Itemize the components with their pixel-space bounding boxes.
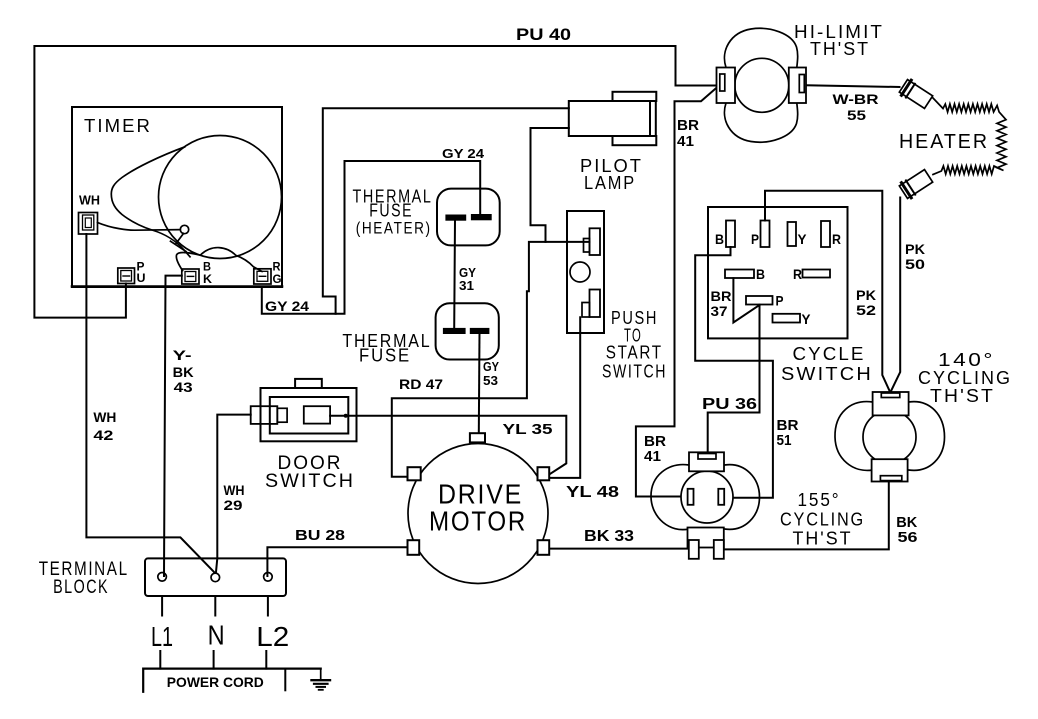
thermal fuse (lower) right contact [471, 329, 489, 333]
svg-text:55: 55 [847, 107, 866, 123]
wire GY 53: lower fuse to motor top terminal [478, 333, 481, 434]
cycle switch slot Y [788, 222, 797, 246]
svg-text:BK 33: BK 33 [584, 528, 634, 545]
wire PK 50: heater bottom plug down to 140 thermostat [890, 198, 900, 393]
terminal R/G [254, 269, 271, 284]
thermal fuse (lower) body [436, 303, 499, 359]
timer pointer pivot [180, 225, 188, 233]
wire L2 below block [267, 596, 269, 616]
motor terminal upper-left [408, 467, 421, 480]
svg-text:53: 53 [483, 373, 498, 388]
power cord divider [284, 669, 286, 691]
wire GY 31: upper fuse to lower fuse [453, 220, 456, 329]
wire Y-BK 43: timer B/K terminal down to terminal block L1 [164, 276, 182, 576]
push-to-start bottom contact [582, 290, 600, 318]
svg-text:G: G [273, 272, 282, 286]
155 thermostat bottom housing [688, 528, 724, 559]
pilot lamp body [569, 92, 657, 145]
svg-text:P: P [751, 231, 759, 247]
svg-text:WH: WH [93, 409, 116, 425]
svg-text:41: 41 [677, 133, 694, 150]
svg-text:B: B [715, 231, 724, 247]
thermal fuse (heater) body [437, 189, 500, 246]
svg-text:Y: Y [802, 311, 812, 327]
timer pointer arm [98, 223, 181, 231]
wire BR 41 net: hi-limit left terminal down to 155 thermostat left terminal [636, 88, 717, 497]
svg-text:CYCLING: CYCLING [780, 510, 865, 530]
svg-text:YL 35: YL 35 [503, 421, 553, 438]
door switch contact [304, 406, 330, 423]
wire W-BR 55: hi-limit right terminal to heater plug [806, 85, 900, 87]
svg-text:TIMER: TIMER [84, 116, 152, 136]
power cord bracket [143, 669, 321, 692]
svg-text:BK: BK [173, 364, 194, 380]
terminal block screw L1 [158, 573, 167, 582]
svg-text:RD 47: RD 47 [399, 376, 443, 392]
push-to-start button [570, 262, 590, 282]
svg-text:START: START [606, 342, 663, 362]
svg-text:R: R [793, 266, 802, 282]
terminal P/U [118, 268, 135, 284]
thermal fuse (heater) right contact [472, 215, 491, 219]
svg-text:BR: BR [677, 117, 699, 134]
power cord tick L2 [265, 651, 267, 669]
wire BU 28: terminal block L2 up, right to motor lower-left terminal [267, 547, 407, 576]
cycle switch bar B [725, 270, 754, 279]
heater top plug [899, 78, 934, 109]
wire YL 48: motor upper-right terminal right, up to push-start bottom [549, 317, 580, 478]
power cord tick N [213, 651, 215, 669]
motor terminal lower-left [408, 540, 420, 555]
svg-text:CYCLE: CYCLE [793, 344, 866, 364]
heater element zigzag [933, 98, 1007, 175]
wire PK 52: cycle switch P slot up, right, down to 140 thermostat [765, 191, 890, 393]
140 thermostat left petal [835, 402, 873, 471]
svg-text:U: U [137, 271, 146, 285]
wire L1 below block [161, 596, 163, 616]
svg-text:MOTOR: MOTOR [429, 506, 527, 537]
svg-text:P: P [776, 293, 784, 309]
junction dot door switch wire [344, 414, 348, 418]
timer cam lobe [111, 147, 190, 257]
svg-text:B: B [756, 266, 765, 282]
svg-text:L1: L1 [151, 621, 173, 652]
svg-text:PU 36: PU 36 [702, 396, 757, 413]
wire N below block [214, 596, 216, 616]
svg-text:WH: WH [79, 193, 100, 208]
cycle switch slot B [726, 221, 735, 248]
svg-text:50: 50 [905, 256, 925, 272]
drive motor body [408, 444, 548, 584]
wire PU 36: cycle switch P bar down, left, down to 155 thermostat top [708, 305, 760, 453]
timer pointer spurs [171, 234, 187, 252]
wire cycle switch wiper: B bar down, diagonal to P bar [733, 278, 759, 322]
terminal WH [79, 213, 98, 235]
cycle switch bar P [746, 296, 773, 305]
motor terminal upper-right [538, 467, 550, 480]
svg-text:LAMP: LAMP [584, 173, 636, 193]
cycle switch slot P [761, 221, 770, 248]
155 thermostat disc [681, 471, 733, 523]
svg-text:YL 48: YL 48 [566, 484, 619, 501]
svg-text:37: 37 [711, 303, 728, 319]
wire WH 42: timer WH terminal down, right, diagonal to N screw [86, 234, 214, 573]
wire BK 33: motor lower-right terminal to 155 thermostat left foot [549, 548, 689, 550]
thermal fuse (lower) left contact [444, 329, 465, 333]
svg-text:FUSE: FUSE [359, 346, 411, 366]
155 thermostat right petal [725, 465, 760, 530]
svg-text:PK: PK [905, 241, 925, 257]
cycle switch bar R [803, 270, 831, 278]
hi-limit left terminal [717, 68, 736, 104]
svg-text:CYCLING: CYCLING [918, 368, 1012, 388]
cycle switch bar Y [773, 314, 801, 323]
svg-text:PU 40: PU 40 [516, 25, 571, 44]
svg-text:Y-: Y- [173, 347, 192, 363]
svg-text:N: N [208, 620, 225, 651]
thermal fuse (heater) left contact [446, 216, 465, 220]
terminal B/K [182, 269, 199, 284]
svg-text:R: R [832, 231, 841, 247]
motor terminal top [470, 433, 485, 442]
svg-text:TH'ST: TH'ST [793, 529, 853, 549]
hi-limit th'st bottom petal [724, 103, 797, 142]
140 thermostat top housing [873, 392, 909, 415]
svg-text:(HEATER): (HEATER) [356, 219, 432, 238]
svg-text:PK: PK [856, 287, 876, 303]
svg-text:W-BR: W-BR [833, 91, 879, 107]
wire door switch to YL35 run: door contact right across to pentagon corner [330, 416, 566, 475]
svg-text:56: 56 [898, 529, 918, 546]
svg-text:140°: 140° [938, 350, 995, 370]
wire RD 47 net: push-start top terminal to motor upper-left terminal [392, 242, 590, 477]
push-to-start top contact [584, 228, 601, 255]
timer box [72, 107, 282, 287]
svg-text:SWITCH: SWITCH [781, 364, 873, 384]
svg-text:HEATER: HEATER [899, 131, 989, 153]
svg-text:29: 29 [224, 497, 243, 513]
wire pilot lamp lower lead to RD47 net [531, 128, 569, 242]
svg-text:155°: 155° [798, 490, 841, 510]
svg-text:SWITCH: SWITCH [602, 361, 667, 381]
ground [312, 669, 331, 690]
wire WH 29: door switch plug left, down to terminal block N [216, 415, 251, 572]
155 thermostat left petal [651, 465, 689, 530]
terminal block screw N [211, 573, 220, 582]
wire GY 24 net: timer R/G down, right, up, right to fuse; branch up-left to pilot lamp [262, 108, 569, 313]
push-to-start switch body [567, 211, 604, 333]
svg-text:BLOCK: BLOCK [53, 577, 109, 598]
140 thermostat bottom housing [872, 459, 908, 481]
svg-text:GY 24: GY 24 [265, 298, 309, 314]
svg-text:GY 24: GY 24 [442, 146, 485, 161]
svg-text:43: 43 [174, 379, 193, 395]
svg-text:BU 28: BU 28 [295, 527, 345, 544]
svg-text:WH: WH [224, 482, 245, 498]
wire PU 40 net: timer P/U down, left, up, across top, to hi-limit [34, 46, 716, 318]
door switch outer [261, 379, 357, 441]
wire BK 56: 155 thermostat right foot to 140 thermostat bottom [724, 482, 889, 550]
140 thermostat right petal [909, 402, 945, 471]
timer cam disc [159, 136, 282, 259]
power cord tick L1 [159, 651, 161, 669]
svg-text:POWER CORD: POWER CORD [167, 674, 264, 690]
terminal block screw L2 [264, 573, 273, 582]
svg-text:TH'ST: TH'ST [930, 386, 995, 406]
timer follower curve [176, 248, 262, 272]
hi-limit th'st top petal [724, 28, 797, 67]
svg-text:SWITCH: SWITCH [265, 471, 355, 492]
cycle switch slot R [821, 221, 830, 247]
155 thermostat left contact [688, 489, 694, 505]
motor terminal lower-right [538, 540, 550, 555]
svg-text:Y: Y [798, 231, 808, 247]
svg-text:31: 31 [459, 278, 474, 293]
155 thermostat right contact [718, 489, 724, 505]
svg-text:FUSE: FUSE [369, 201, 413, 221]
door switch plug [251, 406, 287, 424]
svg-text:42: 42 [93, 427, 113, 443]
155 thermostat top housing [689, 452, 724, 471]
svg-text:GY: GY [483, 359, 499, 374]
140 thermostat disc [863, 411, 916, 464]
svg-text:TH'ST: TH'ST [810, 39, 870, 59]
svg-text:L2: L2 [256, 621, 289, 652]
cycle switch box [708, 207, 848, 338]
svg-text:BR: BR [711, 288, 732, 304]
svg-text:51: 51 [777, 432, 792, 449]
heater bottom plug [899, 168, 934, 199]
hi-limit right terminal [789, 68, 806, 104]
svg-text:K: K [203, 272, 212, 286]
wire BR 37 / BR 51 net: cycle switch B slot to 155 thermostat right terminal [695, 247, 773, 498]
terminal block body [145, 558, 286, 596]
svg-text:41: 41 [644, 448, 661, 465]
hi-limit th'st disc [735, 58, 789, 112]
svg-text:52: 52 [856, 302, 876, 318]
